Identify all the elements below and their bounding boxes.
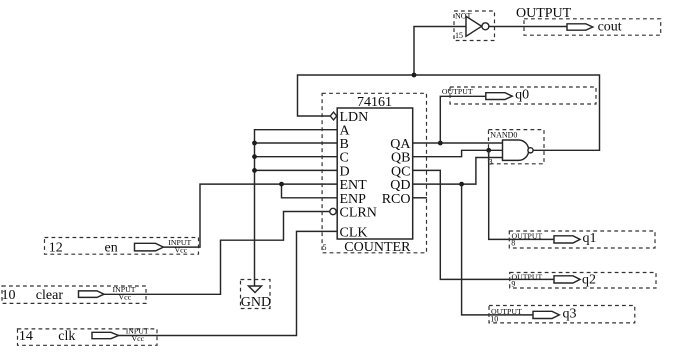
pin ENP bbox=[340, 192, 367, 207]
svg-text:5: 5 bbox=[323, 243, 327, 252]
pin A bbox=[340, 124, 351, 139]
node junction D on GND bus bbox=[252, 168, 257, 173]
output pin q2 bbox=[510, 272, 656, 288]
wire QD branch to q3 pin bbox=[462, 184, 533, 315]
wire clear input to CLRN bbox=[146, 212, 330, 295]
wire branch feedback to NOT input bbox=[414, 27, 466, 76]
output pin q0 bbox=[442, 87, 596, 104]
input pin clk (14) bbox=[18, 326, 158, 345]
nand gate U3 NAND0 bbox=[489, 130, 545, 167]
pin QB bbox=[391, 151, 410, 166]
svg-text:10: 10 bbox=[490, 315, 498, 324]
pin B bbox=[340, 137, 349, 152]
svg-text:q0: q0 bbox=[515, 87, 529, 102]
svg-text:COUNTER: COUNTER bbox=[344, 240, 411, 255]
svg-text:CLK: CLK bbox=[340, 225, 368, 240]
svg-text:Vcc: Vcc bbox=[132, 334, 145, 343]
pin QA bbox=[390, 137, 411, 152]
pin CLK bbox=[340, 225, 368, 240]
wire QA branch to q0 pin bbox=[440, 96, 486, 143]
wire ENT branch to ENP bbox=[282, 184, 338, 198]
node junction QD/q3 bbox=[459, 182, 464, 187]
svg-text:clear: clear bbox=[36, 288, 64, 303]
svg-text:GND: GND bbox=[241, 295, 271, 310]
node junction feedback/NOT branch bbox=[412, 73, 417, 78]
svg-text:15: 15 bbox=[455, 31, 463, 40]
node junction NAND input2 / q1 bbox=[486, 148, 491, 153]
svg-text:q3: q3 bbox=[563, 307, 577, 322]
output pin q3 bbox=[489, 306, 635, 324]
wire GND bus to A B C D inputs bbox=[255, 130, 338, 286]
svg-text:74161: 74161 bbox=[357, 95, 392, 110]
svg-text:q1: q1 bbox=[583, 231, 597, 246]
svg-text:12: 12 bbox=[49, 241, 63, 256]
svg-text:OUTPUT: OUTPUT bbox=[516, 6, 572, 21]
counter U5 74161 COUNTER symbol bbox=[322, 93, 426, 255]
pin C bbox=[340, 151, 349, 166]
wire QC to q2 pin bbox=[413, 170, 555, 279]
svg-text:Vcc: Vcc bbox=[119, 293, 132, 302]
wire QD to NAND input 3 bbox=[413, 158, 503, 185]
svg-text:en: en bbox=[105, 241, 118, 256]
pin CLRN with bubble bbox=[330, 206, 377, 221]
svg-text:10: 10 bbox=[2, 288, 16, 303]
svg-text:cout: cout bbox=[598, 20, 622, 35]
wire NOT output to cout pin bbox=[490, 26, 568, 28]
svg-text:RCO: RCO bbox=[382, 192, 411, 207]
node junction QA/q0 bbox=[438, 141, 443, 146]
node junction ENT/ENP bbox=[279, 182, 284, 187]
pin RCO bbox=[382, 192, 411, 207]
svg-text:CLRN: CLRN bbox=[340, 206, 377, 221]
svg-text:9: 9 bbox=[511, 280, 515, 289]
svg-text:8: 8 bbox=[511, 239, 515, 248]
input pin en (12) bbox=[45, 238, 199, 256]
wire clk input to CLK bbox=[157, 231, 337, 335]
inverter U15 NOT gate bbox=[454, 11, 495, 41]
svg-text:3: 3 bbox=[489, 157, 493, 166]
wire en input to ENT bbox=[199, 184, 338, 247]
wire LDN feedback net: NAND output to LDN bbox=[298, 75, 600, 150]
pin LDN with inverted diamond bbox=[330, 110, 368, 125]
wire RCO stub bbox=[413, 197, 428, 199]
input pin clear (10) bbox=[2, 285, 147, 303]
pin QD bbox=[390, 178, 410, 193]
pin QC bbox=[391, 164, 410, 179]
svg-text:clk: clk bbox=[58, 329, 75, 344]
node junction C on GND bus bbox=[252, 154, 257, 159]
wire QB to NAND input 2 bbox=[413, 150, 503, 156]
pin ENT bbox=[340, 178, 368, 193]
svg-text:OUTPUT: OUTPUT bbox=[512, 273, 543, 282]
svg-text:OUTPUT: OUTPUT bbox=[512, 231, 543, 240]
svg-text:q2: q2 bbox=[582, 272, 596, 287]
wire QA to NAND input 1 bbox=[413, 142, 503, 144]
output pin q1 bbox=[509, 231, 655, 248]
node junction B on GND bus bbox=[252, 141, 257, 146]
svg-text:Vcc: Vcc bbox=[175, 245, 188, 254]
wire q1 branch to q1 pin bbox=[489, 150, 554, 239]
svg-text:14: 14 bbox=[19, 329, 33, 344]
pin D bbox=[340, 164, 350, 179]
svg-text:NAND0: NAND0 bbox=[490, 130, 517, 139]
ground GND symbol bbox=[241, 280, 272, 311]
svg-text:OUTPUT: OUTPUT bbox=[442, 87, 473, 96]
output pin cout bbox=[516, 6, 661, 35]
